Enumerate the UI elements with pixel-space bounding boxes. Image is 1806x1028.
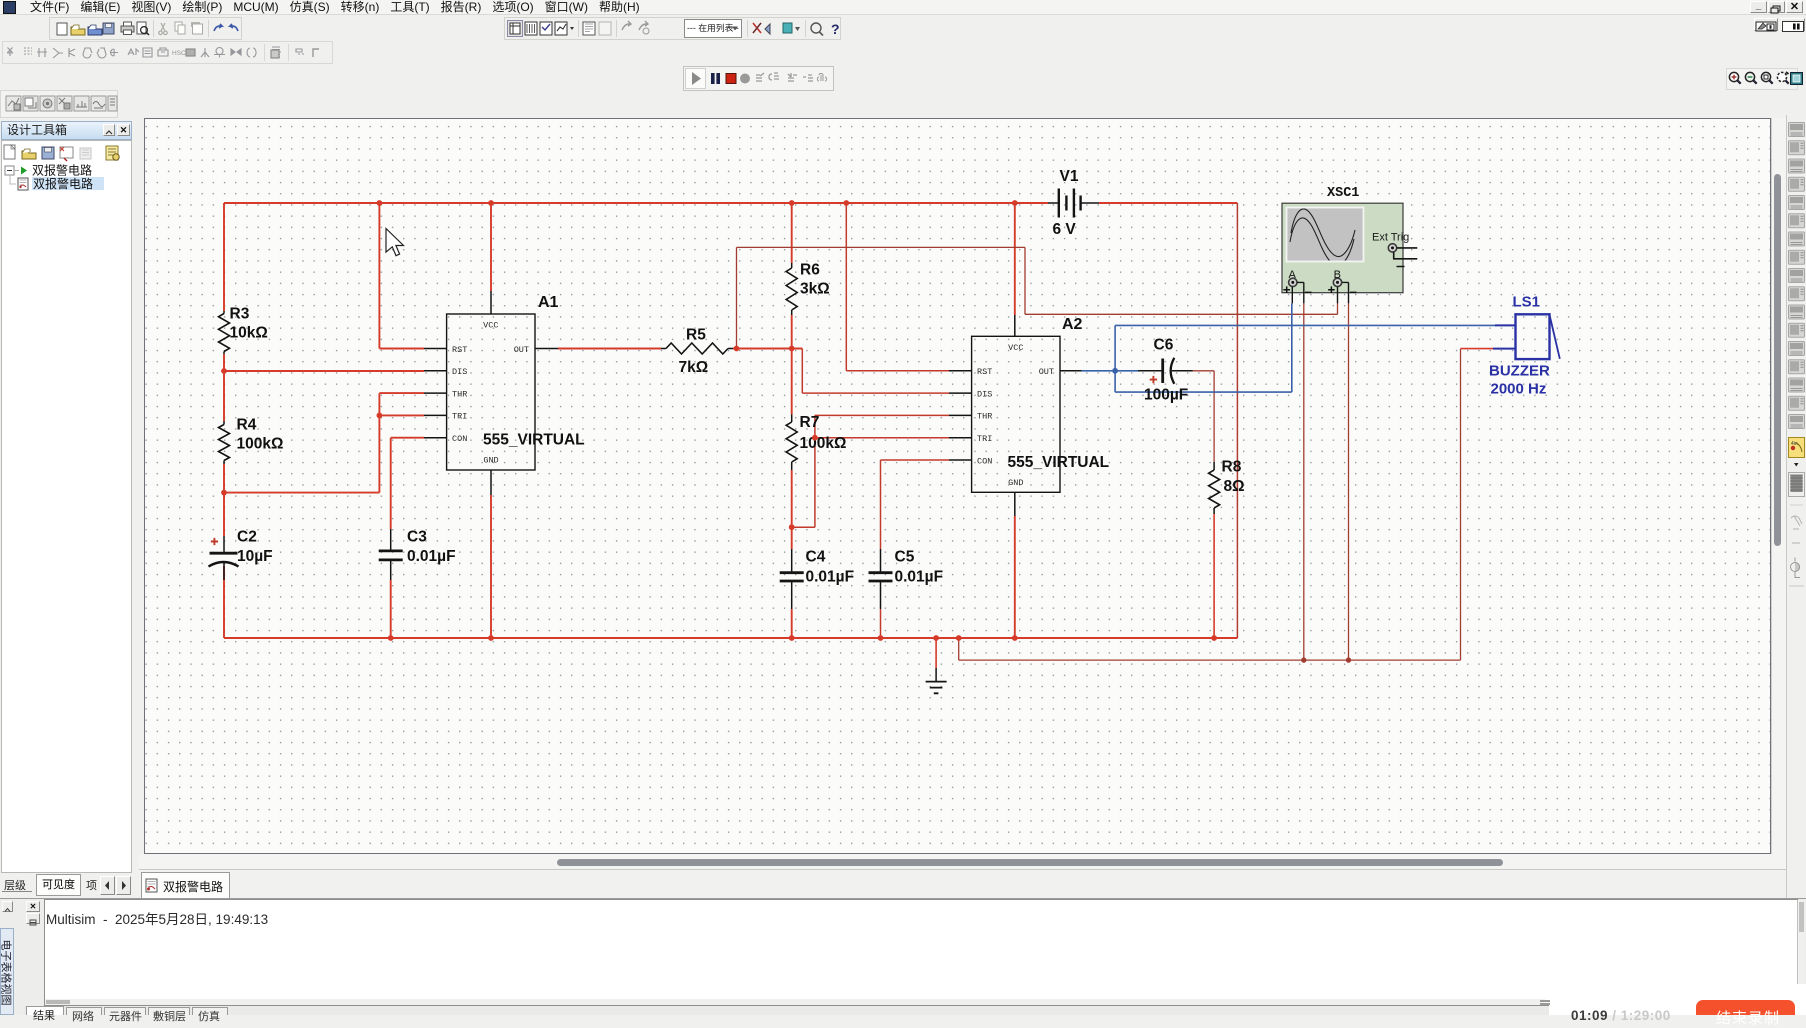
label A2: [1062, 316, 1083, 333]
svg-text:XSC1: XSC1: [1327, 186, 1359, 201]
capacitor C6 (polarized): [1138, 358, 1193, 384]
save: [103, 23, 114, 34]
wire THR-TRI net of U1 to R4 bottom: [224, 393, 424, 493]
floating simulation toolbar: [683, 66, 835, 92]
XSC1 screen sine waves: [1290, 209, 1355, 266]
wire rail to RST of U2: [846, 203, 949, 371]
capacitor C2 (polarized): [209, 536, 239, 580]
capacitor C3: [379, 529, 403, 580]
wire CON of U2 to C5: [881, 460, 950, 638]
canvas border: [144, 118, 1771, 854]
svg-text:0.01µF: 0.01µF: [895, 569, 944, 586]
XSC1 channel A terminal: [1289, 278, 1297, 286]
toolbar row2 left group: [0, 15, 300, 41]
svg-text:OUT: OUT: [1039, 367, 1054, 377]
svg-text:10µF: 10µF: [237, 548, 273, 565]
label R6 3kΩ: [800, 262, 830, 298]
vertical scrollbar: [1771, 118, 1786, 854]
undo redo: [214, 24, 222, 31]
wire node R5/R6 to scope channel B: [737, 247, 1338, 348]
zoom toolbar top right: [1726, 68, 1804, 92]
label V1 6V: [1053, 168, 1079, 238]
junction dots ground spur: [1301, 657, 1351, 662]
svg-text:C3: C3: [407, 529, 427, 546]
left small icons row: [0, 90, 125, 118]
capacitor C4: [780, 549, 804, 609]
svg-text:LS1: LS1: [1513, 294, 1541, 311]
wire scope B minus drop: [1348, 303, 1350, 660]
label C2 10µF: [237, 529, 273, 566]
combo: [685, 20, 742, 38]
label R8 8Ω: [1222, 459, 1245, 496]
U2 pin labels: [977, 343, 1054, 488]
instruments rail (right): [1786, 115, 1806, 898]
wire GND of U1 to rail: [490, 495, 492, 638]
label R7 100kΩ: [800, 414, 847, 452]
svg-text:0.01µF: 0.01µF: [407, 548, 456, 565]
svg-text:C6: C6: [1154, 337, 1174, 354]
svg-text:7kΩ: 7kΩ: [679, 359, 709, 376]
svg-text:555_VIRTUAL: 555_VIRTUAL: [483, 432, 585, 449]
op-amp-timer U1 555_VIRTUAL box: [447, 314, 535, 470]
svg-text:DIS: DIS: [977, 389, 992, 399]
label C3 0.01µF: [407, 529, 456, 566]
svg-text:6 V: 6 V: [1053, 221, 1077, 238]
label C4 0.01µF: [806, 549, 855, 586]
svg-text:555_VIRTUAL: 555_VIRTUAL: [1008, 454, 1110, 471]
svg-text:3kΩ: 3kΩ: [800, 281, 830, 298]
wire node R3-R4 to DIS of U1: [224, 370, 424, 372]
wire battery negative to ground rail: [1236, 203, 1238, 638]
label LS1 BUZZER 2000 Hz: [1489, 294, 1550, 398]
window buttons: [1750, 1, 1767, 13]
svg-text:R6: R6: [800, 262, 820, 279]
preview: [137, 22, 146, 34]
wire rail to RST of U1: [379, 203, 424, 349]
wire ground spur to scope minus and LS1: [959, 349, 1461, 660]
wire left column R3/R4/C2: [223, 203, 225, 638]
svg-text:VCC: VCC: [483, 321, 498, 331]
svg-text:A: A: [1289, 269, 1297, 281]
toolbar row3: [0, 41, 340, 65]
svg-text:C4: C4: [806, 549, 826, 566]
svg-text:C5: C5: [895, 549, 915, 566]
svg-text:R5: R5: [686, 327, 706, 344]
label R5 7kΩ: [679, 327, 709, 377]
oscilloscope XSC1 body: [1282, 203, 1403, 293]
svg-text:R7: R7: [800, 414, 820, 431]
cut copy paste (grayed): [159, 23, 168, 35]
toolbar row2 middle group: [500, 15, 845, 41]
svg-text:THR: THR: [977, 412, 992, 422]
wire R8 bottom to rail: [1213, 514, 1215, 638]
XSC1 probe stubs: [1292, 282, 1348, 303]
wire rail to VCC of U2: [1014, 203, 1016, 315]
wire GND of U2 to rail: [1014, 516, 1016, 638]
wire OUT of U1 to R5: [558, 348, 661, 350]
svg-text:R8: R8: [1222, 459, 1242, 476]
wire R6 column: [791, 203, 793, 527]
XSC1 terminal labels A B plus minus: [1289, 269, 1341, 281]
svg-text:R4: R4: [237, 417, 257, 434]
junction dots red: [221, 200, 1217, 641]
svg-text:C2: C2: [237, 529, 257, 546]
svg-text:VCC: VCC: [1008, 343, 1023, 353]
canvas tab strip: [139, 869, 1806, 898]
svg-text:OUT: OUT: [514, 345, 529, 355]
wire C6 to R8: [1193, 371, 1214, 462]
XSC1 ext trig terminal: [1388, 244, 1417, 267]
U2 pin stubs: [949, 315, 1082, 516]
label C5 0.01µF: [895, 549, 944, 586]
svg-text:100µF: 100µF: [1144, 387, 1188, 404]
svg-text:B: B: [1334, 269, 1341, 281]
resistor R3: [219, 311, 230, 354]
label C2 plus sign: [211, 538, 218, 545]
capacitor C5: [869, 549, 893, 609]
U1 pin labels: [452, 321, 529, 466]
row2 right pair of buttons: [1754, 18, 1778, 31]
op-amp-timer U2 555_VIRTUAL box: [972, 336, 1060, 492]
svg-text:TRI: TRI: [977, 434, 992, 444]
open yellow: [71, 27, 85, 35]
battery V1: [1048, 189, 1099, 218]
svg-text:DIS: DIS: [452, 367, 467, 377]
wire blue net OUT of U2 / C6 / LS1 / scope A: [1082, 303, 1495, 392]
svg-text:0.01µF: 0.01µF: [806, 569, 855, 586]
wire CON of U1 to C3: [391, 438, 424, 638]
mouse cursor: [386, 229, 404, 256]
wire VCC top rail: [224, 202, 1237, 204]
bottom tabs (cut off): [24, 1006, 1806, 1015]
U1 pin stubs: [424, 291, 558, 495]
new: [57, 23, 67, 35]
svg-text:100kΩ: 100kΩ: [237, 436, 284, 453]
wire scope A minus drop: [1303, 303, 1305, 660]
label Ext Trig: [1372, 232, 1409, 244]
rotated dock tab: [0, 928, 14, 1015]
svg-text:CON: CON: [452, 434, 467, 444]
label R3 10kΩ: [230, 306, 268, 342]
results white area: [44, 899, 1798, 1006]
wire rail to VCC of U1: [490, 203, 492, 291]
buzzer LS1: [1493, 314, 1560, 359]
svg-text:A2: A2: [1062, 316, 1083, 333]
wire LS1 bottom pin: [1461, 348, 1494, 350]
tree: [2, 163, 130, 191]
resistor R8: [1209, 462, 1220, 514]
svg-text:A1: A1: [538, 294, 559, 311]
svg-text:2000 Hz: 2000 Hz: [1491, 381, 1547, 398]
svg-text:100kΩ: 100kΩ: [800, 435, 847, 452]
svg-text:THR: THR: [452, 389, 467, 399]
wire THR-TRI net of U2 to R7 bottom: [792, 415, 949, 527]
svg-text:GND: GND: [483, 456, 498, 466]
svg-text:V1: V1: [1060, 168, 1079, 185]
label U2 555_VIRTUAL: [1008, 454, 1110, 471]
svg-text:GND: GND: [1008, 478, 1023, 488]
label C6 plus sign: [1150, 376, 1157, 383]
svg-text:Ext Trig: Ext Trig: [1372, 232, 1409, 244]
wire node to DIS of U2: [802, 349, 949, 394]
svg-text:8Ω: 8Ω: [1224, 478, 1245, 495]
svg-text:TRI: TRI: [452, 412, 467, 422]
wire R5 to node R6/R7: [733, 348, 802, 350]
junction dot blue OUT net: [1112, 368, 1118, 374]
svg-text:R3: R3: [230, 306, 250, 323]
left panel bottom tabs: [0, 873, 140, 898]
resistor R7: [786, 415, 797, 471]
recording overlay: [1549, 984, 1806, 1015]
label XSC1: [1327, 186, 1359, 201]
XSC1 channel B terminal: [1333, 278, 1341, 286]
svg-text:RST: RST: [452, 345, 467, 355]
resistor R6: [786, 263, 797, 315]
svg-text:RST: RST: [977, 367, 992, 377]
print: [121, 26, 134, 32]
svg-text:CON: CON: [977, 456, 992, 466]
wire C4 column: [791, 527, 793, 638]
label A1: [538, 294, 559, 311]
svg-text:BUZZER: BUZZER: [1489, 363, 1550, 380]
label C6 100µF: [1144, 337, 1188, 404]
label R4 100kΩ: [237, 417, 284, 453]
ground symbol: [926, 638, 947, 693]
resistor R5: [661, 343, 733, 354]
horizontal scrollbar: [139, 854, 1786, 869]
svg-text:10kΩ: 10kΩ: [230, 325, 268, 342]
label U1 555_VIRTUAL: [483, 432, 585, 449]
wire ground bottom rail: [224, 637, 1237, 639]
resistor R4: [219, 421, 230, 464]
